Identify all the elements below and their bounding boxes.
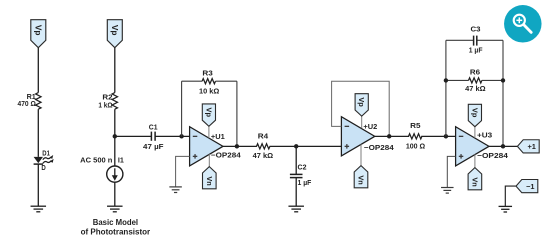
svg-text:of Phototransistor: of Phototransistor	[81, 228, 151, 237]
svg-text:C3: C3	[471, 25, 481, 34]
svg-text:+U3: +U3	[477, 130, 492, 139]
svg-text:+U2: +U2	[363, 122, 377, 131]
svg-text:D1: D1	[42, 149, 50, 158]
svg-text:−1: −1	[526, 182, 534, 191]
svg-text:−OP284: −OP284	[364, 143, 395, 152]
svg-text:47 kΩ: 47 kΩ	[465, 84, 486, 93]
svg-text:Vp: Vp	[110, 25, 120, 36]
svg-text:R4: R4	[258, 132, 269, 141]
svg-text:1 µF: 1 µF	[469, 45, 483, 54]
svg-text:10 kΩ: 10 kΩ	[199, 86, 219, 95]
svg-text:1 kΩ: 1 kΩ	[98, 101, 112, 110]
svg-text:R6: R6	[470, 68, 480, 77]
svg-text:Basic Model: Basic Model	[93, 218, 138, 227]
svg-text:R5: R5	[410, 121, 420, 130]
svg-text:Vp: Vp	[204, 108, 213, 118]
svg-text:1 µF: 1 µF	[298, 178, 312, 187]
svg-text:47 kΩ: 47 kΩ	[253, 151, 274, 160]
svg-text:I1: I1	[118, 155, 124, 164]
svg-text:100 Ω: 100 Ω	[406, 141, 425, 150]
svg-text:Vn: Vn	[357, 175, 366, 185]
svg-text:R3: R3	[202, 69, 212, 78]
svg-text:47 µF: 47 µF	[143, 142, 164, 151]
svg-text:Vn: Vn	[470, 177, 479, 187]
svg-text:AC 500 n: AC 500 n	[80, 155, 112, 164]
svg-text:Vp: Vp	[357, 97, 366, 107]
svg-text:−OP284: −OP284	[477, 151, 509, 160]
svg-text:C2: C2	[298, 163, 307, 172]
svg-text:C1: C1	[149, 123, 158, 132]
svg-text:D: D	[41, 163, 45, 172]
svg-text:−OP284: −OP284	[211, 151, 242, 160]
svg-text:470 Ω: 470 Ω	[18, 99, 36, 108]
svg-text:+1: +1	[527, 142, 535, 151]
svg-text:Vn: Vn	[205, 176, 214, 186]
svg-text:+U1: +U1	[211, 132, 225, 141]
svg-text:Vp: Vp	[33, 25, 43, 36]
svg-text:Vp: Vp	[470, 108, 479, 118]
